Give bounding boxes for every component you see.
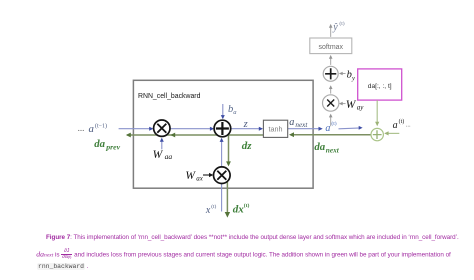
- label a_next: [289, 117, 308, 129]
- svg-text:W: W: [153, 149, 164, 161]
- svg-text:W: W: [346, 99, 357, 111]
- tanh box: [263, 120, 287, 137]
- label dx_t: [233, 202, 250, 215]
- label b_a: [228, 104, 237, 116]
- label W_ax: [185, 170, 203, 182]
- svg-text:prev: prev: [105, 142, 120, 151]
- label da_prev: [94, 138, 120, 152]
- wire tanh output a_next (blue): [288, 127, 323, 131]
- wire b_a input (blue): [221, 104, 225, 119]
- label a_t (blue, after box): [325, 120, 336, 134]
- svg-text:ŷ: ŷ: [332, 22, 338, 33]
- svg-text:dx: dx: [233, 203, 245, 215]
- label W_aa: [153, 149, 173, 161]
- add node green (da sum): [371, 128, 383, 140]
- svg-text:y: y: [351, 75, 355, 82]
- wire a_t up to mult_Way (gray): [329, 114, 333, 127]
- svg-text:da: da: [314, 141, 325, 153]
- svg-text:x: x: [205, 205, 211, 216]
- wire mult_Way up to add_by (gray): [329, 85, 333, 93]
- svg-text:(t): (t): [399, 118, 405, 125]
- wire da_next backward into tanh (green): [289, 132, 371, 137]
- svg-text:ay: ay: [357, 103, 365, 111]
- svg-text:RNN_cell_backward: RNN_cell_backward: [138, 93, 201, 100]
- svg-text:tanh: tanh: [269, 124, 283, 133]
- svg-text:(t−1): (t−1): [95, 122, 107, 129]
- label W_ay: [346, 99, 364, 111]
- wire W_ax into mult (black): [203, 173, 213, 177]
- svg-text:W: W: [185, 170, 196, 182]
- caption line 3: [37, 263, 89, 270]
- svg-text:a: a: [289, 117, 294, 128]
- svg-text:next: next: [295, 121, 308, 129]
- svg-text:ax: ax: [196, 174, 204, 182]
- svg-text:(t): (t): [211, 203, 216, 210]
- add node b_y (grayed): [323, 66, 338, 81]
- wire da_next incoming from right (light green): [384, 131, 399, 135]
- svg-text:next: next: [326, 145, 340, 154]
- label a_prev = a^(t-1): [89, 122, 108, 135]
- caption line 1: [46, 234, 459, 241]
- svg-text:dz: dz: [242, 140, 253, 152]
- wire Wax-mult up to add (blue): [220, 138, 224, 167]
- wire a_prev input (blue): [119, 127, 154, 131]
- svg-text:(t): (t): [331, 120, 336, 127]
- multiply node Waa: [154, 120, 170, 136]
- svg-text:(t): (t): [339, 20, 344, 27]
- svg-text:...: ...: [78, 123, 85, 133]
- wire add_by up to softmax (gray): [329, 55, 333, 65]
- box da[:,:,t] (magenta): [358, 69, 402, 100]
- wire add to tanh (blue), label z: [231, 127, 263, 131]
- box RNN_cell_backward: [133, 80, 313, 188]
- svg-text:a: a: [89, 123, 94, 135]
- svg-text:softmax: softmax: [319, 44, 344, 51]
- wire x_t input (blue): [221, 184, 223, 212]
- wire y_hat up arrow (gray): [329, 24, 333, 37]
- svg-text:a: a: [325, 123, 330, 134]
- softmax box (grayed): [310, 38, 352, 54]
- label x_t: [205, 203, 217, 216]
- wire dz drop down to Wax-mult (green): [226, 135, 231, 166]
- svg-text:a: a: [393, 120, 398, 131]
- wire dz backward from tanh, through add, exits as da_prev (green): [126, 133, 264, 138]
- wire dx_t output down (green): [225, 181, 230, 218]
- svg-text:da[:, :, t]: da[:, :, t]: [368, 83, 392, 90]
- caption line 2: [36, 249, 450, 261]
- wire W_ay into mult (gray): [339, 102, 346, 106]
- wire Waa-mult to add (blue): [170, 127, 214, 131]
- svg-text:(t): (t): [244, 202, 250, 209]
- wire da[:,:,t] down to green add (light green): [375, 100, 379, 126]
- label a_t (black, far right) with dots: [393, 118, 411, 131]
- svg-text:aa: aa: [165, 152, 173, 161]
- label da_next (green): [314, 141, 339, 154]
- svg-text:da: da: [94, 138, 105, 150]
- multiply node W_ay (grayed): [323, 95, 339, 111]
- wire W_aa up arrow (blue): [160, 138, 164, 150]
- label b_y: [347, 70, 355, 82]
- wire b_y into add (gray): [339, 72, 346, 76]
- svg-text:...: ...: [406, 122, 411, 129]
- multiply node Wax: [214, 167, 231, 184]
- add node center: [214, 120, 231, 137]
- label y_hat: [332, 20, 345, 33]
- wire a_t continue right (blue): [339, 126, 363, 130]
- svg-text:z: z: [243, 119, 248, 130]
